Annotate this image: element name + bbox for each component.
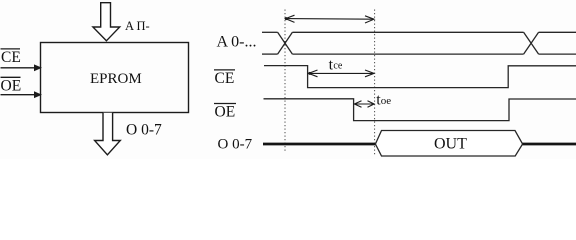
svg-text:OE: OE (215, 104, 236, 121)
svg-text:oe: oe (381, 95, 392, 107)
EPROM box U1 (41, 43, 189, 113)
dashed timing reference line 1 (284, 10, 286, 153)
CE overline (timing row) (214, 69, 235, 71)
wire bus top rail middle (292, 31, 523, 33)
svg-text:CE: CE (215, 70, 235, 87)
tOE dimension arrow (354, 101, 374, 107)
svg-text:ce: ce (333, 61, 342, 72)
bus crossover X2 (524, 32, 539, 54)
wire bus bottom rail middle (292, 53, 523, 55)
address bus block arrow (top, hollow) (93, 3, 120, 41)
wire O0-7 thick left (263, 143, 375, 146)
wire bus bottom rail left (262, 53, 278, 55)
wire bus bottom rail right (539, 53, 576, 55)
OE overline (1, 76, 21, 78)
svg-text:O 0-7: O 0-7 (126, 121, 162, 138)
wire CE arrow into EPROM (1, 67, 37, 69)
bus crossover X1 (278, 32, 293, 54)
wire bus top rail left (262, 31, 278, 33)
svg-text:OE: OE (1, 78, 22, 95)
signal A0-... address bus waveform (262, 32, 576, 54)
wire O0-7 thick right (523, 143, 576, 146)
svg-text:O 0-7: O 0-7 (218, 136, 253, 152)
svg-text:EPROM: EPROM (90, 71, 142, 87)
access time dimension arrow (top, double headed) (286, 15, 375, 23)
signal CE waveform (264, 66, 576, 88)
signal OE waveform (264, 99, 576, 121)
output bus block arrow (bottom, hollow) (95, 113, 121, 155)
OUT valid-data hexagon (375, 131, 522, 157)
dashed timing reference line 2 (374, 10, 376, 157)
CE overline (1, 48, 21, 50)
OE overline (timing row) (214, 103, 236, 105)
svg-text:OUT: OUT (434, 136, 467, 153)
svg-text:CE: CE (1, 49, 21, 66)
tCE dimension arrow (309, 70, 374, 77)
svg-text:A Π-: A Π- (125, 19, 150, 33)
wire OE arrow into EPROM (1, 94, 37, 96)
svg-text:A 0-...: A 0-... (217, 34, 257, 51)
wire bus top rail right (539, 31, 576, 33)
